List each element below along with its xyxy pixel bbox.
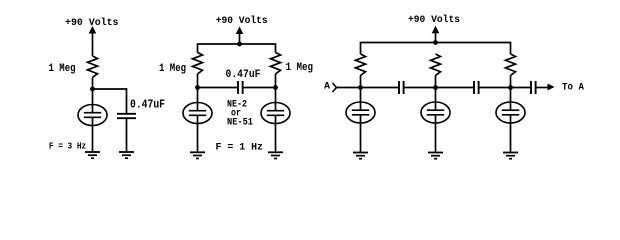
wire left node to lamp (circuit 2) <box>197 88 199 111</box>
neon lamp (circuit 1) <box>78 105 107 126</box>
neon lamp right NE-2 (circuit 2) <box>261 103 290 124</box>
supply arrow (circuit 3) <box>432 26 440 34</box>
wire left resistor to node (circuit 2) <box>197 74 199 88</box>
svg-text:F = 3 Hz: F = 3 Hz <box>49 142 86 152</box>
wire arrow to resistor R (circuit 1) <box>92 32 94 56</box>
supply arrow (circuit 2) <box>236 27 244 35</box>
wire middle lamp to ground (circuit 3) <box>435 115 437 153</box>
wire right resistor to node (circuit 2) <box>275 74 277 88</box>
svg-text:F = 1 Hz: F = 1 Hz <box>216 143 264 154</box>
neon lamp right (circuit 3) <box>496 102 525 123</box>
wire middle resistor to node (circuit 3) <box>435 76 437 88</box>
wire left lamp to ground (circuit 3) <box>360 115 362 153</box>
neon lamp left (circuit 3) <box>346 102 375 123</box>
junction right node (circuit 3) <box>508 85 513 90</box>
svg-text:+90 Volts: +90 Volts <box>216 15 268 27</box>
supply arrow (circuit 1) <box>89 26 97 34</box>
wire middle node to lamp (circuit 3) <box>435 88 437 111</box>
ground lamp branch (circuit 1) <box>85 152 100 158</box>
neon lamp middle (circuit 3) <box>421 102 450 123</box>
wire arrow to rail (circuit 2) <box>239 33 241 45</box>
capacitor 0.47uF (circuit 2) <box>238 81 243 94</box>
svg-text:0.47uF: 0.47uF <box>130 98 165 112</box>
wire supply rail (circuit 2) <box>198 44 276 53</box>
resistor left (circuit 3) <box>356 54 366 76</box>
coupling capacitor 1 (circuit 3) <box>399 81 404 94</box>
resistor 1 Meg left (circuit 2) <box>193 53 203 75</box>
ground middle lamp (circuit 3) <box>428 153 443 159</box>
neon lamp left NE-2 (circuit 2) <box>183 103 212 124</box>
ground capacitor branch (circuit 1) <box>119 152 134 158</box>
svg-text:To A: To A <box>562 83 584 94</box>
wire capacitor to ground (circuit 1) <box>126 118 128 152</box>
wire left lamp to ground (circuit 2) <box>197 115 199 152</box>
wire left resistor to node (circuit 3) <box>360 76 362 88</box>
junction supply rail (circuit 2) <box>237 42 242 47</box>
wire capacitor 1 to middle node (circuit 3) <box>404 87 474 89</box>
input chevron (circuit 3) <box>333 83 337 92</box>
capacitor 0.47uF (circuit 1) <box>117 113 136 115</box>
svg-text:+90 Volts: +90 Volts <box>65 17 119 29</box>
ground right lamp (circuit 3) <box>503 153 518 159</box>
wire resistor to node (circuit 1) <box>92 78 94 90</box>
wire left node to lamp (circuit 3) <box>360 88 362 111</box>
svg-text:0.47uF: 0.47uF <box>226 69 261 81</box>
resistor right (circuit 3) <box>506 54 516 76</box>
ground left lamp (circuit 2) <box>190 152 205 158</box>
resistor 1 Meg (circuit 1) <box>88 56 98 78</box>
wire right lamp to ground (circuit 2) <box>275 115 277 152</box>
svg-text:1 Meg: 1 Meg <box>159 63 186 75</box>
wire node to capacitor branch (circuit 1) <box>93 89 127 114</box>
coupling capacitor 3 output (circuit 3) <box>531 81 536 94</box>
wire input to left node (circuit 3) <box>337 87 400 89</box>
wire right node to lamp (circuit 3) <box>510 88 512 111</box>
svg-text:A: A <box>324 82 330 93</box>
wire supply rail (circuit 3) <box>361 43 511 55</box>
wire capacitor to right node (circuit 2) <box>243 87 276 89</box>
ground left lamp (circuit 3) <box>353 153 368 159</box>
resistor middle (circuit 3) <box>431 54 441 76</box>
wire right resistor to node (circuit 3) <box>510 76 512 88</box>
output arrowhead To A (circuit 3) <box>548 84 555 91</box>
junction supply rail (circuit 3) <box>433 40 438 45</box>
wire left node to capacitor (circuit 2) <box>198 87 239 89</box>
wire right node to lamp (circuit 2) <box>275 88 277 111</box>
wire node to lamp top plate (circuit 1) <box>92 89 94 113</box>
ground right lamp (circuit 2) <box>268 152 283 158</box>
svg-text:NE-51: NE-51 <box>227 118 253 129</box>
junction right node (circuit 2) <box>273 85 278 90</box>
junction node (circuit 1) <box>90 87 95 92</box>
wire arrow to rail (circuit 3) <box>435 32 437 43</box>
coupling capacitor 2 (circuit 3) <box>474 81 479 94</box>
svg-text:1 Meg: 1 Meg <box>49 63 76 75</box>
svg-text:+90 Volts: +90 Volts <box>408 14 460 26</box>
junction left node A (circuit 3) <box>358 85 363 90</box>
svg-text:1 Meg: 1 Meg <box>286 62 313 74</box>
wire right lamp to ground (circuit 3) <box>510 115 512 153</box>
wire capacitor 2 to right node (circuit 3) <box>479 87 531 89</box>
resistor 1 Meg right (circuit 2) <box>271 53 281 75</box>
junction middle node (circuit 3) <box>433 85 438 90</box>
wire lamp to ground (circuit 1) <box>92 117 94 152</box>
junction left node (circuit 2) <box>195 85 200 90</box>
wire capacitor 3 to output arrow (circuit 3) <box>536 87 548 89</box>
